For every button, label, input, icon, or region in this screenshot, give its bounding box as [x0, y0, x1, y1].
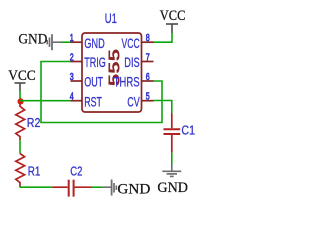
wire VCC to junction	[19, 91, 21, 101]
pin 6 stub	[142, 80, 154, 82]
resistor R1	[16, 154, 25, 188]
wire junction to pin4 (RST)	[20, 100, 71, 102]
svg-text:THRS: THRS	[114, 74, 140, 90]
svg-text:GND: GND	[157, 180, 188, 197]
pin 2 stub	[71, 61, 83, 63]
svg-text:GND: GND	[84, 35, 105, 52]
ground bottom-middle	[102, 180, 116, 196]
svg-text:CV: CV	[127, 95, 140, 110]
svg-text:OUT: OUT	[84, 75, 103, 90]
resistor R2	[16, 103, 25, 140]
svg-text:R2: R2	[27, 116, 41, 130]
capacitor C1	[164, 114, 181, 153]
svg-text:U1: U1	[105, 10, 117, 26]
svg-text:RST: RST	[84, 94, 102, 110]
wire R2 to R1	[19, 140, 21, 153]
svg-text:R1: R1	[28, 166, 41, 179]
pin 1 stub	[71, 41, 83, 43]
svg-text:GND: GND	[18, 31, 47, 48]
pin 3 stub	[71, 80, 83, 82]
junction dot	[18, 98, 24, 104]
svg-text:VCC: VCC	[8, 67, 35, 84]
svg-text:8: 8	[146, 32, 150, 44]
VCC symbol top-right	[166, 24, 178, 33]
pin 8 stub	[142, 41, 154, 43]
wire C1 to ground	[171, 153, 173, 164]
svg-text:C1: C1	[181, 124, 195, 138]
pin 5 stub	[142, 100, 154, 102]
pin 7 stub	[142, 61, 154, 63]
svg-text:GND: GND	[117, 180, 150, 197]
svg-text:5: 5	[146, 90, 150, 102]
svg-text:TRIG: TRIG	[84, 55, 106, 70]
svg-text:6: 6	[146, 71, 150, 83]
pin 4 stub	[71, 100, 83, 102]
op-amp U1 (555 timer IC body)	[82, 33, 142, 112]
wire pin5 CV to C1	[154, 101, 172, 114]
svg-text:VCC: VCC	[122, 36, 140, 52]
wire R1 to C2	[20, 186, 52, 188]
svg-text:VCC: VCC	[160, 8, 186, 24]
ground bottom-right	[162, 164, 181, 176]
VCC symbol left	[15, 83, 26, 91]
ground top-left	[47, 34, 61, 50]
wire C2 to ground	[92, 186, 103, 188]
svg-text:7: 7	[146, 51, 150, 63]
svg-text:DIS: DIS	[124, 54, 139, 71]
wire pin2 TRIG to pin6 THRS	[41, 62, 162, 123]
wire GND to pin1	[61, 41, 71, 43]
svg-text:C2: C2	[70, 166, 82, 180]
capacitor C2	[52, 180, 91, 197]
wire pin8 to VCC	[154, 33, 173, 42]
svg-text:3: 3	[70, 71, 74, 83]
